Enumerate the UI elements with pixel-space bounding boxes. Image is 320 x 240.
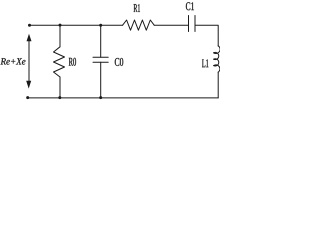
node dot C0 top [99, 24, 102, 27]
node dot C0 bottom [99, 96, 102, 99]
label C0 [115, 58, 123, 66]
wire C1 to right corner [195, 25, 218, 46]
resistor R1 [123, 20, 155, 30]
node dot R0 bottom [58, 96, 61, 99]
wire L1 to bottom [217, 72, 219, 98]
label C1 [186, 2, 194, 10]
arrowhead up [27, 34, 32, 41]
wire R0 top lead [59, 25, 61, 47]
arrowhead down [26, 81, 31, 89]
label R1 [134, 4, 140, 12]
node dot R0 top [59, 24, 62, 27]
inductor L1 [214, 46, 221, 72]
node dot bottom left [26, 96, 29, 99]
capacitor C1 [189, 16, 196, 32]
arrow shaft (impedance arrow) [28, 40, 30, 82]
wire top left from node A to R1 [30, 24, 123, 26]
wire R0 bottom lead [59, 77, 61, 98]
wire C0 top lead [100, 25, 102, 57]
label Re+Xe [1, 58, 26, 64]
resistor R0 [54, 47, 65, 77]
wire bottom [28, 97, 219, 99]
capacitor C0 [93, 57, 108, 62]
label L1 [202, 59, 208, 67]
label R0 [69, 58, 76, 66]
node A dot top left [28, 24, 31, 27]
wire C0 bottom lead [100, 62, 102, 98]
wire R1 to C1 [154, 24, 188, 26]
